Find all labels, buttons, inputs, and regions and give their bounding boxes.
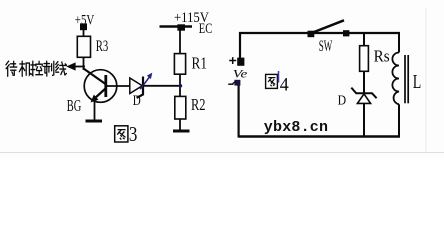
- switch SW lever: [312, 20, 345, 33]
- battery top terminal dot: [237, 58, 244, 66]
- glyph 控: [31, 61, 43, 75]
- node dot: [179, 84, 182, 87]
- loop top wire: [239, 32, 400, 34]
- blue arrow annotation: [140, 73, 152, 90]
- blue tick: [278, 71, 280, 83]
- glyph 制: [44, 61, 54, 76]
- +115V rail bar: [160, 25, 193, 27]
- right wire top to coil: [398, 32, 400, 53]
- control line wire + left arrow: [72, 66, 85, 68]
- switch SW right terminal: [343, 30, 349, 36]
- inductor core lines: [404, 55, 406, 103]
- rail terminal dot: [177, 24, 185, 30]
- page divider line: [0, 152, 444, 154]
- svg-text:D: D: [133, 93, 141, 109]
- standby control line label: [6, 61, 67, 76]
- glyph 线: [56, 62, 67, 75]
- svg-text:R1: R1: [192, 54, 208, 73]
- resistor R2: [175, 96, 186, 119]
- base wire to diode: [107, 85, 130, 87]
- glyph 待: [6, 61, 17, 76]
- branch wire top to Rs: [363, 34, 365, 46]
- +5V terminal dot: [80, 23, 87, 30]
- svg-text:Rs: Rs: [374, 47, 390, 66]
- zener diode D triangle: [357, 94, 370, 104]
- right wire coil to bottom: [398, 104, 400, 137]
- loop left wire lower: [238, 85, 240, 138]
- emitter wire down: [94, 101, 96, 121]
- transistor BG collector lead: [84, 69, 106, 85]
- ground bar under R2: [173, 130, 190, 133]
- svg-text:ybx8.cn: ybx8.cn: [264, 119, 328, 136]
- zener diode D cathode bar with ticks: [351, 88, 376, 99]
- wire diode to R1/R2 node: [143, 85, 181, 87]
- svg-text:4: 4: [280, 74, 289, 95]
- diode D triangle: [130, 78, 143, 94]
- svg-text:Ve: Ve: [233, 68, 248, 80]
- wire +5V to R3: [83, 29, 85, 37]
- wire Rs to zener: [363, 71, 365, 94]
- faint table border: [425, 8, 427, 152]
- inductor L coil: [392, 53, 399, 105]
- svg-text:R3: R3: [96, 38, 109, 55]
- wire R3 to node: [83, 57, 85, 70]
- wire zener to bottom: [363, 104, 365, 138]
- emitter ground bar: [86, 120, 103, 123]
- svg-text:D: D: [338, 92, 347, 107]
- resistor R1: [174, 54, 185, 75]
- diode D cathode bar with bend: [137, 77, 143, 98]
- switch SW left terminal: [308, 31, 315, 38]
- resistor R3: [77, 36, 90, 57]
- transistor BG emitter lead with arrow: [95, 89, 106, 99]
- battery plus sign: [229, 57, 236, 64]
- svg-text:BG: BG: [67, 96, 82, 115]
- transistor BG circle: [84, 70, 117, 103]
- wire R2 to ground: [179, 119, 181, 131]
- wire R1 to node to R2: [179, 74, 181, 97]
- svg-text:R2: R2: [191, 95, 206, 114]
- battery bottom terminal dot: [234, 80, 240, 86]
- battery minus sign: [228, 83, 233, 85]
- svg-text:EC: EC: [199, 21, 213, 37]
- glyph 机: [19, 61, 30, 76]
- resistor Rs: [360, 46, 369, 72]
- svg-text:3: 3: [129, 122, 138, 146]
- loop bottom wire: [239, 135, 400, 137]
- svg-text:SW: SW: [319, 38, 333, 55]
- svg-text:L: L: [413, 72, 422, 93]
- transistor BG base bar: [104, 75, 107, 97]
- wire rail to R1: [179, 30, 181, 54]
- caption 图3 glyph box: [115, 126, 128, 142]
- caption 图4 glyph box: [266, 74, 278, 88]
- small tail on bottom dot: [233, 81, 236, 83]
- loop left wire upper: [239, 32, 241, 59]
